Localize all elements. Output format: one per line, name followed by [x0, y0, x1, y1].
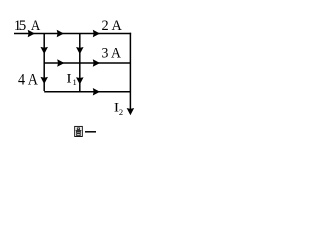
arrow right on L1 at node B	[57, 30, 63, 36]
svg-text:A: A	[31, 18, 41, 34]
wire right vertical V3	[129, 33, 131, 110]
arrow down on V2 upper	[77, 48, 83, 54]
arrow 4A down on V1 lower	[41, 77, 47, 83]
arrow 15A right on L1	[28, 30, 34, 36]
arrow I1 down on V2 lower	[77, 78, 83, 84]
caption glyph 圖 (drawn)	[75, 126, 83, 136]
wire lower horizontal L3	[44, 91, 130, 93]
arrow right on L3	[93, 89, 99, 95]
svg-text:3 A: 3 A	[102, 46, 122, 62]
svg-text:2: 2	[119, 107, 123, 117]
caption dash 一	[85, 131, 96, 133]
arrow right on L2	[58, 60, 64, 66]
wire middle horizontal L2	[44, 62, 130, 64]
wire left vertical V1	[43, 34, 45, 92]
wire top horizontal L1	[14, 33, 131, 35]
wire middle vertical V2	[79, 34, 81, 92]
svg-text:4 A: 4 A	[18, 72, 39, 89]
svg-text:I: I	[66, 72, 71, 86]
arrow 2A right on L1	[93, 30, 99, 36]
arrow down on V1 upper	[41, 47, 47, 53]
arrow I2 down on V3 bottom	[127, 109, 133, 115]
svg-text:2 A: 2 A	[102, 18, 122, 34]
arrow 3A right on L2	[93, 60, 99, 66]
svg-text:1: 1	[73, 77, 77, 87]
